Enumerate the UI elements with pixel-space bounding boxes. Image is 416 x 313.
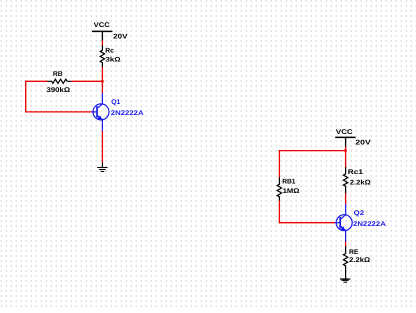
svg-text:2.2kΩ: 2.2kΩ [349, 257, 371, 264]
svg-text:RB1: RB1 [282, 179, 295, 186]
svg-text:2.2kΩ: 2.2kΩ [350, 180, 372, 187]
svg-text:390kΩ: 390kΩ [47, 87, 71, 94]
svg-text:Rc: Rc [105, 47, 114, 54]
svg-text:20V: 20V [355, 140, 371, 147]
svg-text:2N2222A: 2N2222A [353, 221, 386, 228]
svg-text:Rc1: Rc1 [348, 169, 363, 176]
svg-text:Q2: Q2 [354, 210, 365, 217]
svg-text:3kΩ: 3kΩ [106, 57, 121, 64]
svg-text:Q1: Q1 [111, 99, 120, 106]
svg-text:RB: RB [53, 71, 63, 78]
svg-text:2N2222A: 2N2222A [111, 110, 144, 117]
svg-text:RE: RE [349, 249, 359, 256]
svg-text:VCC: VCC [94, 22, 110, 29]
svg-text:1MΩ: 1MΩ [283, 188, 300, 195]
svg-text:VCC: VCC [336, 129, 353, 136]
svg-text:20V: 20V [113, 33, 128, 40]
